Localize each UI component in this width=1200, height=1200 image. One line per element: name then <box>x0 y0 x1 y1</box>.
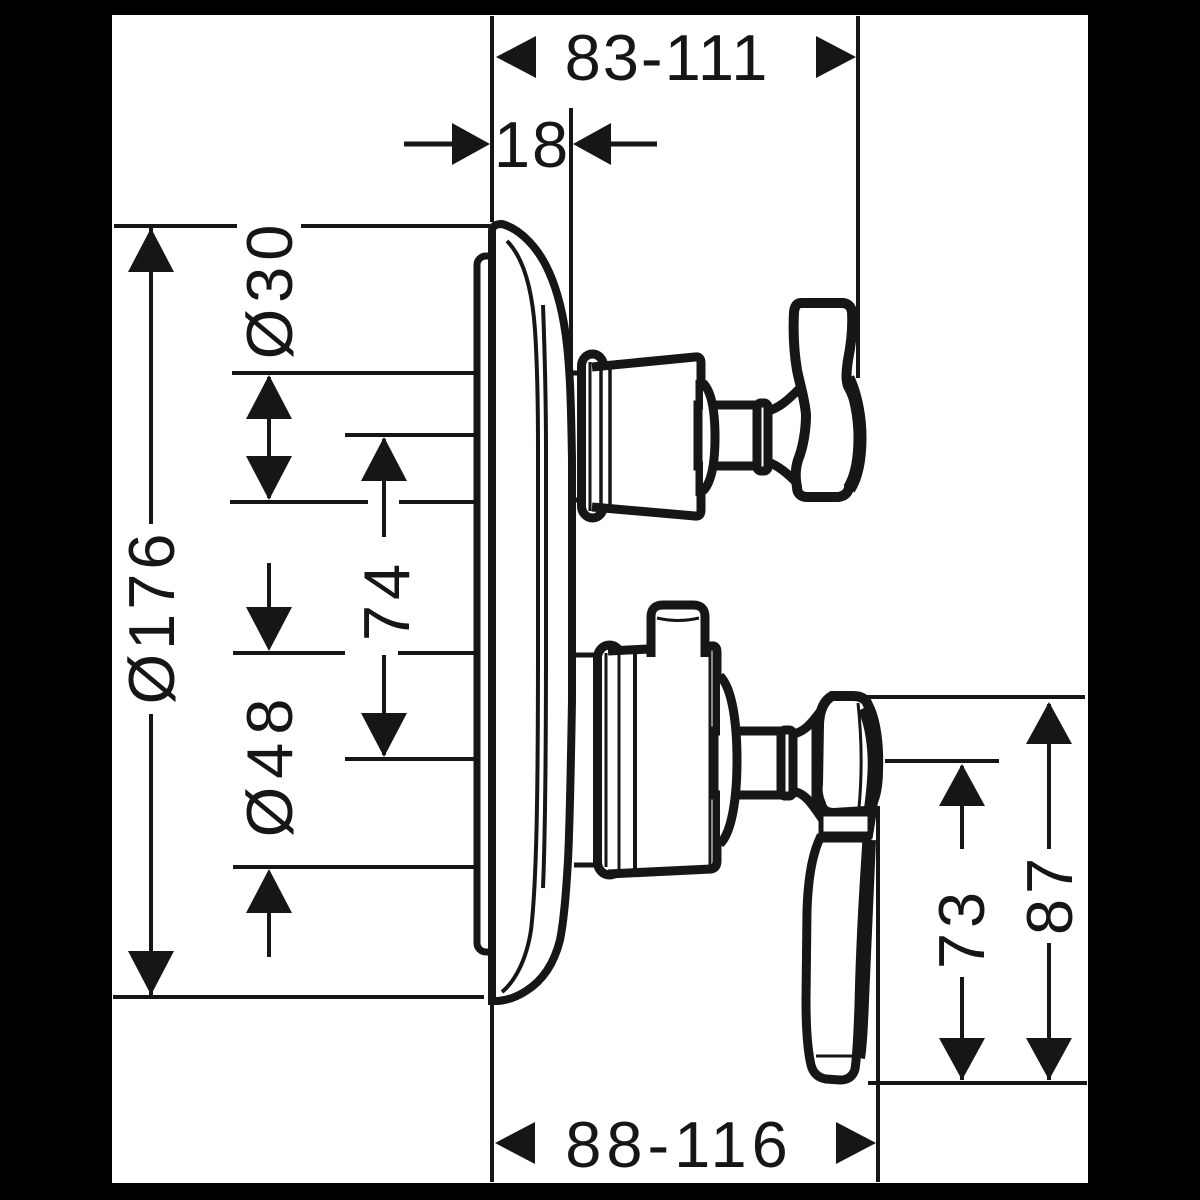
cross handle knob <box>794 303 861 497</box>
dim O48 lower up arrow <box>246 869 292 913</box>
dim O176 up arrow <box>128 228 174 272</box>
line plate bottom y=997 <box>113 995 484 999</box>
line H lever bottom y=1083 <box>868 1081 1087 1085</box>
dim 74 up arrow <box>361 437 407 481</box>
line E bottom valve sleeve bottom y=867 <box>233 865 474 869</box>
lever arm right black edge <box>859 840 870 1058</box>
lever neck <box>793 717 816 810</box>
dim 87 down arrow <box>1026 1038 1072 1080</box>
dim 83-111 right arrow <box>816 36 856 78</box>
extension line plate front x=571 (upper part) <box>569 108 573 250</box>
svg-text:Ø48: Ø48 <box>233 691 306 838</box>
dim 73 down arrow <box>939 1038 985 1080</box>
thermostat step lines <box>618 651 621 873</box>
line C top valve sleeve bottom y=502 <box>230 500 368 504</box>
extension line cross-handle right x=858 <box>856 16 860 378</box>
svg-text:83-111: 83-111 <box>565 21 770 94</box>
dim O176 shaft bottom <box>149 714 153 995</box>
cross handle flange <box>757 403 768 471</box>
top valve step lines <box>599 366 603 508</box>
cross handle neck <box>768 386 806 488</box>
dim 73 lower shaft <box>960 977 964 1080</box>
thermostat right cap bulge <box>720 676 737 844</box>
dim 87 upper shaft <box>1047 704 1051 849</box>
lever flange <box>781 730 793 796</box>
top valve right cap bulge <box>703 383 715 491</box>
safety stop button <box>651 605 705 657</box>
dim 18 left arrow <box>452 123 490 165</box>
svg-text:73: 73 <box>925 887 998 969</box>
cross handle near arm black band <box>848 378 860 489</box>
dim 18 right arrow <box>573 123 611 165</box>
svg-text:87: 87 <box>1013 853 1086 935</box>
line B top valve sleeve top y=373 <box>232 371 474 375</box>
dim 74 down arrow <box>361 713 407 757</box>
dim O30 shaft <box>267 377 271 498</box>
line D connector to sleeve <box>574 653 598 658</box>
dim 87 lower shaft <box>1047 943 1051 1080</box>
svg-text:Ø30: Ø30 <box>233 219 306 360</box>
dim O176 shaft top <box>149 228 153 524</box>
dim O48 upper down arrow <box>246 607 292 651</box>
lever hub <box>818 696 879 813</box>
thermostat sleeve <box>598 645 622 875</box>
wall flange slab <box>477 256 497 952</box>
line A plate top y=226 <box>114 224 237 228</box>
dim 73 upper shaft <box>960 766 964 849</box>
dim 74 upper shaft <box>382 439 386 537</box>
thermostat body <box>608 646 717 874</box>
dim 74 lower shaft <box>382 655 386 755</box>
extension line plate front x=571 (lower part over plate face) <box>569 250 573 645</box>
line top valve center y=435 <box>345 433 474 437</box>
dim 88-116 left arrow <box>495 1122 535 1164</box>
lever arm <box>806 838 867 1080</box>
dim O48 upper shaft <box>267 563 271 620</box>
top valve stem <box>698 405 760 466</box>
line B connector to sleeve <box>569 371 582 376</box>
svg-text:Ø176: Ø176 <box>115 529 188 704</box>
dim 83-111 left arrow <box>496 36 536 78</box>
disc inner contour line 1 <box>502 241 538 992</box>
top valve body <box>592 357 701 516</box>
line C connector to sleeve <box>570 498 582 503</box>
thermostat stem <box>714 731 786 795</box>
extension line lever hub right x=878 <box>876 806 880 1182</box>
white drawing area <box>112 15 1088 1183</box>
dim O30 up arrow <box>246 375 292 419</box>
extension line wall plane x=492 top <box>490 16 494 222</box>
extension line wall plane x=492 bottom <box>490 1002 494 1182</box>
dim 87 up arrow <box>1026 702 1072 744</box>
lever tip line <box>816 1055 856 1058</box>
line D bottom valve sleeve top y=653 <box>233 651 345 655</box>
dim O48 lower shaft <box>267 900 271 957</box>
top valve sleeve <box>582 354 604 518</box>
safety stop button top line <box>657 618 699 621</box>
dim 88-116 right arrow <box>836 1122 876 1164</box>
line F lever hub top y=697 <box>858 695 1085 699</box>
svg-text:74: 74 <box>350 559 423 641</box>
dim 18 right tail <box>610 142 657 147</box>
dim 73 up arrow <box>939 764 985 806</box>
dim O30 down arrow <box>246 456 292 500</box>
line E connector to sleeve <box>574 863 598 868</box>
svg-text:18: 18 <box>494 108 570 181</box>
dim O176 down arrow <box>128 951 174 995</box>
thermostat sleeve inner line <box>605 653 608 867</box>
lever hub inner line <box>858 703 861 808</box>
svg-text:88-116: 88-116 <box>565 1108 793 1181</box>
lever ring band <box>821 814 870 834</box>
escutcheon disc <box>492 224 572 1001</box>
line bottom valve center y=759 <box>345 757 474 761</box>
line G lever stem center y=761 <box>885 759 999 763</box>
top valve sleeve inner line <box>589 362 592 511</box>
disc inner contour line 2 <box>543 305 546 888</box>
dim 18 left tail <box>404 142 455 147</box>
lever hub black band <box>864 708 874 838</box>
